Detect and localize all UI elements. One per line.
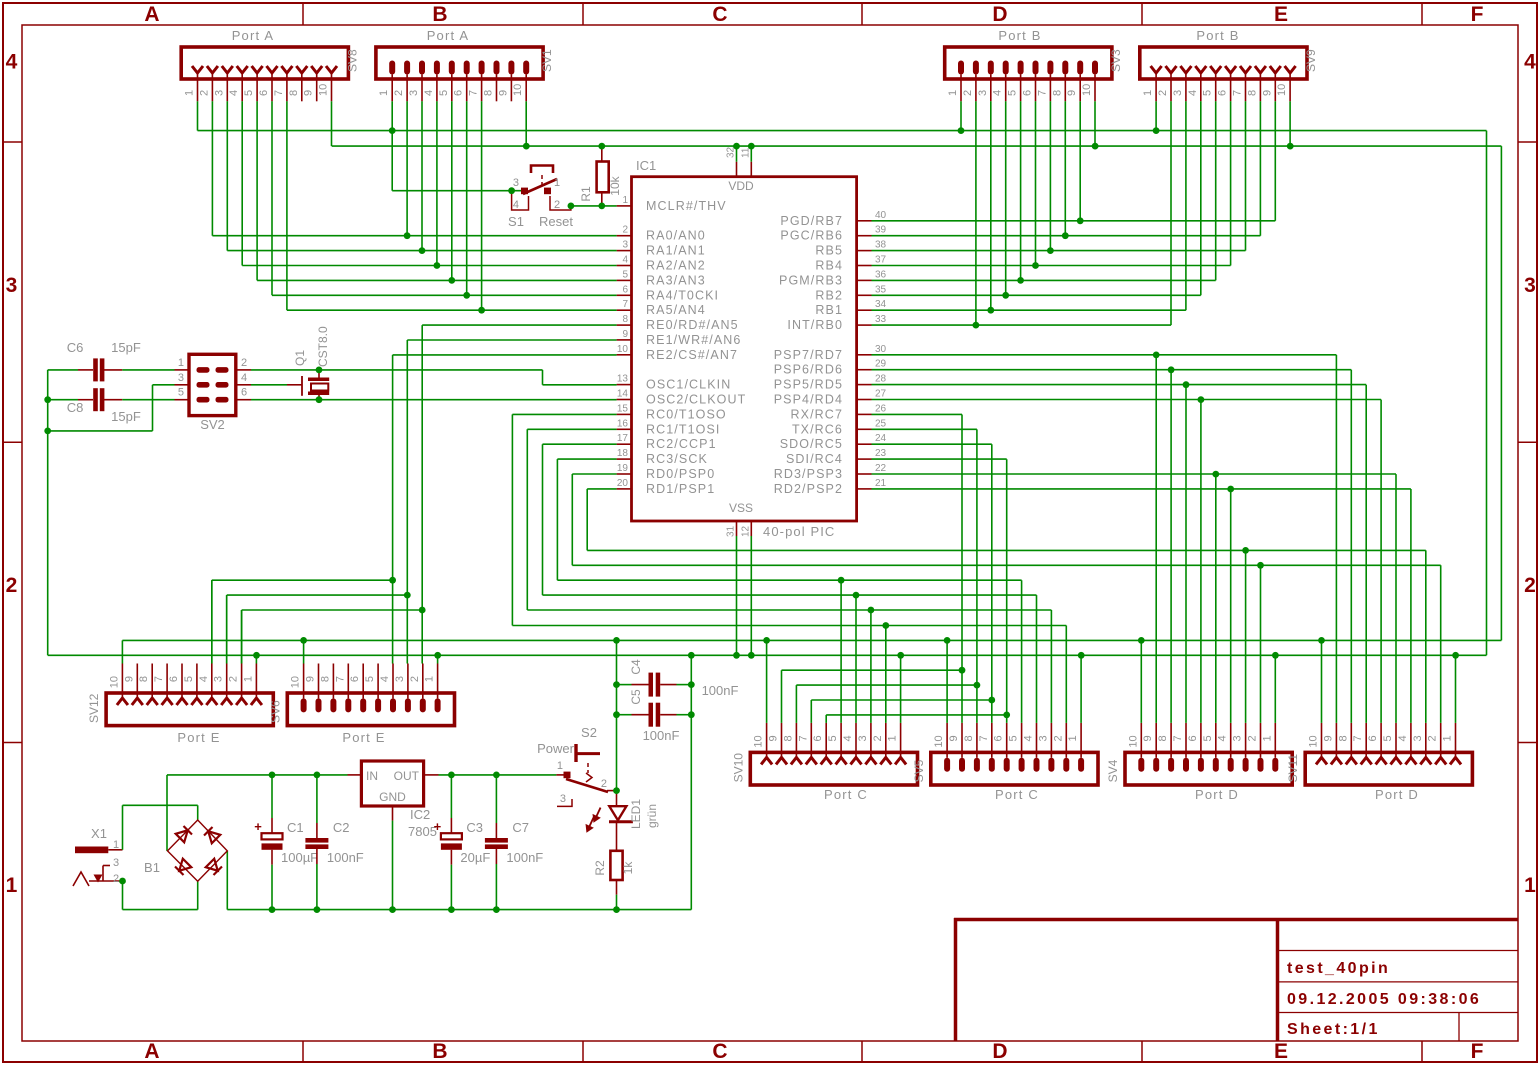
svg-text:4: 4: [241, 372, 247, 384]
svg-text:Port B: Port B: [1196, 28, 1239, 43]
svg-text:3: 3: [622, 240, 628, 251]
svg-text:RC3/SCK: RC3/SCK: [646, 452, 708, 466]
svg-text:10: 10: [1308, 735, 1320, 747]
svg-text:A: A: [144, 1040, 159, 1063]
svg-text:D: D: [992, 3, 1007, 26]
svg-text:C: C: [712, 3, 727, 26]
svg-text:6: 6: [812, 735, 824, 741]
svg-text:7805: 7805: [408, 824, 437, 839]
svg-text:2: 2: [409, 676, 421, 682]
svg-text:8: 8: [1157, 735, 1169, 741]
svg-text:3: 3: [560, 793, 566, 805]
svg-text:C: C: [712, 1040, 727, 1063]
svg-text:2: 2: [601, 778, 607, 790]
svg-text:8: 8: [782, 735, 794, 741]
svg-text:8: 8: [138, 676, 150, 682]
svg-text:2: 2: [393, 90, 405, 96]
svg-text:PGM/RB3: PGM/RB3: [779, 273, 843, 287]
svg-text:IN: IN: [366, 769, 378, 783]
svg-text:100nF: 100nF: [702, 683, 739, 698]
svg-text:13: 13: [617, 374, 629, 385]
svg-text:5: 5: [622, 269, 628, 280]
svg-text:SV2: SV2: [200, 417, 225, 432]
svg-text:28: 28: [875, 374, 887, 385]
svg-text:IC1: IC1: [636, 158, 656, 173]
svg-text:MCLR#/THV: MCLR#/THV: [646, 199, 727, 213]
svg-text:Power: Power: [537, 741, 575, 756]
svg-text:2: 2: [554, 199, 560, 211]
svg-text:A: A: [144, 3, 159, 26]
svg-text:RD0/PSP0: RD0/PSP0: [646, 467, 715, 481]
svg-text:10: 10: [1081, 84, 1093, 96]
svg-text:TX/RC6: TX/RC6: [792, 422, 843, 436]
svg-text:6: 6: [993, 735, 1005, 741]
svg-text:4: 4: [228, 90, 240, 96]
svg-text:2: 2: [1157, 90, 1169, 96]
svg-text:1: 1: [947, 90, 959, 96]
svg-text:6: 6: [1367, 735, 1379, 741]
svg-text:8: 8: [1246, 90, 1258, 96]
svg-text:1: 1: [113, 839, 119, 851]
svg-text:23: 23: [875, 448, 887, 459]
svg-text:14: 14: [617, 389, 629, 400]
svg-text:Port E: Port E: [342, 730, 385, 745]
svg-text:F: F: [1471, 1040, 1484, 1063]
svg-text:5: 5: [178, 387, 184, 399]
svg-text:36: 36: [875, 269, 887, 280]
svg-text:26: 26: [875, 403, 887, 414]
svg-text:1: 1: [887, 735, 899, 741]
svg-text:SV11: SV11: [1286, 754, 1300, 783]
svg-text:SV4: SV4: [1106, 759, 1120, 782]
svg-text:19: 19: [617, 463, 629, 474]
svg-text:5: 5: [243, 90, 255, 96]
svg-text:2: 2: [1427, 735, 1439, 741]
svg-text:17: 17: [617, 433, 629, 444]
svg-text:3: 3: [113, 857, 119, 869]
svg-text:E: E: [1274, 3, 1288, 26]
svg-text:15pF: 15pF: [111, 340, 141, 355]
svg-text:22: 22: [875, 463, 887, 474]
svg-text:20: 20: [617, 478, 629, 489]
svg-text:7: 7: [153, 676, 165, 682]
svg-text:SV1: SV1: [540, 49, 554, 72]
svg-text:24: 24: [875, 433, 887, 444]
svg-text:34: 34: [875, 299, 887, 310]
svg-text:RA5/AN4: RA5/AN4: [646, 303, 706, 317]
svg-text:9: 9: [948, 735, 960, 741]
svg-text:CST8.0: CST8.0: [316, 326, 330, 367]
svg-text:4: 4: [842, 735, 854, 741]
svg-text:31: 31: [726, 525, 737, 537]
svg-text:RE2/CS#/AN7: RE2/CS#/AN7: [646, 348, 738, 362]
svg-text:SDO/RC5: SDO/RC5: [780, 437, 843, 451]
svg-text:Port D: Port D: [1195, 787, 1239, 802]
svg-text:5: 5: [1008, 735, 1020, 741]
svg-text:3: 3: [408, 90, 420, 96]
svg-text:2: 2: [241, 357, 247, 369]
svg-text:PGC/RB6: PGC/RB6: [780, 229, 843, 243]
svg-text:6: 6: [1022, 90, 1034, 96]
svg-text:1: 1: [557, 760, 563, 772]
svg-text:1: 1: [424, 676, 436, 682]
svg-text:grün: grün: [645, 804, 659, 828]
svg-text:Port B: Port B: [998, 28, 1041, 43]
svg-text:25: 25: [875, 418, 887, 429]
svg-text:6: 6: [1187, 735, 1199, 741]
svg-text:Port E: Port E: [177, 730, 220, 745]
svg-text:E: E: [1274, 1040, 1288, 1063]
svg-text:RA2/AN2: RA2/AN2: [646, 259, 706, 273]
svg-text:1: 1: [1142, 90, 1154, 96]
svg-text:OUT: OUT: [394, 769, 420, 783]
svg-text:7: 7: [273, 90, 285, 96]
svg-text:2: 2: [228, 676, 240, 682]
svg-text:2: 2: [1247, 735, 1259, 741]
svg-text:9: 9: [303, 90, 315, 96]
svg-text:RD1/PSP1: RD1/PSP1: [646, 482, 715, 496]
svg-text:7: 7: [1232, 90, 1244, 96]
svg-text:RA3/AN3: RA3/AN3: [646, 273, 706, 287]
svg-text:12: 12: [740, 525, 751, 537]
svg-text:9: 9: [1142, 735, 1154, 741]
svg-text:9: 9: [497, 90, 509, 96]
svg-text:RB1: RB1: [815, 303, 843, 317]
svg-text:39: 39: [875, 225, 887, 236]
svg-text:9: 9: [1066, 90, 1078, 96]
svg-text:1: 1: [1261, 735, 1273, 741]
svg-text:30: 30: [875, 344, 887, 355]
svg-text:PSP6/RD6: PSP6/RD6: [774, 363, 843, 377]
svg-text:10: 10: [753, 735, 765, 747]
svg-text:7: 7: [978, 735, 990, 741]
svg-text:SV5: SV5: [912, 759, 926, 782]
svg-text:3: 3: [857, 735, 869, 741]
svg-text:4: 4: [423, 90, 435, 96]
svg-text:10: 10: [290, 676, 302, 688]
svg-text:PSP5/RD5: PSP5/RD5: [774, 378, 843, 392]
svg-text:1: 1: [378, 90, 390, 96]
svg-text:4: 4: [198, 676, 210, 682]
svg-text:5: 5: [1382, 735, 1394, 741]
svg-text:7: 7: [797, 735, 809, 741]
svg-text:15: 15: [617, 403, 629, 414]
svg-text:8: 8: [319, 676, 331, 682]
svg-text:10: 10: [617, 344, 629, 355]
svg-text:5: 5: [1202, 735, 1214, 741]
svg-text:PSP7/RD7: PSP7/RD7: [774, 348, 843, 362]
svg-text:1: 1: [1442, 735, 1454, 741]
svg-text:1: 1: [178, 357, 184, 369]
svg-text:4: 4: [513, 199, 519, 211]
svg-text:+: +: [434, 819, 442, 834]
svg-text:SV9: SV9: [1304, 49, 1318, 72]
svg-text:S1: S1: [508, 214, 524, 229]
svg-text:S2: S2: [581, 725, 597, 740]
svg-text:4: 4: [1023, 735, 1035, 741]
svg-text:Reset: Reset: [539, 214, 573, 229]
svg-text:RC1/T1OSI: RC1/T1OSI: [646, 422, 721, 436]
svg-text:Port D: Port D: [1375, 787, 1419, 802]
svg-text:100µF: 100µF: [281, 850, 318, 865]
svg-text:RC2/CCP1: RC2/CCP1: [646, 437, 717, 451]
svg-text:+: +: [254, 819, 262, 834]
svg-text:Port A: Port A: [427, 28, 470, 43]
svg-text:4: 4: [1397, 735, 1409, 741]
svg-text:SV3: SV3: [1109, 49, 1123, 72]
svg-text:5: 5: [1202, 90, 1214, 96]
svg-text:RD2/PSP2: RD2/PSP2: [774, 482, 843, 496]
svg-text:6: 6: [241, 387, 247, 399]
svg-text:7: 7: [468, 90, 480, 96]
svg-text:RB5: RB5: [815, 244, 843, 258]
svg-text:R2: R2: [593, 860, 607, 876]
svg-text:2: 2: [962, 90, 974, 96]
svg-text:C2: C2: [333, 820, 350, 835]
svg-text:10k: 10k: [608, 175, 622, 195]
svg-text:2: 2: [1052, 735, 1064, 741]
svg-text:9: 9: [305, 676, 317, 682]
svg-text:7: 7: [334, 676, 346, 682]
svg-text:OSC1/CLKIN: OSC1/CLKIN: [646, 378, 731, 392]
svg-text:RD3/PSP3: RD3/PSP3: [774, 467, 843, 481]
svg-text:3: 3: [394, 676, 406, 682]
svg-text:4: 4: [6, 51, 18, 74]
svg-text:SDI/RC4: SDI/RC4: [786, 452, 843, 466]
svg-text:4: 4: [1524, 51, 1536, 74]
svg-text:2: 2: [622, 225, 628, 236]
svg-text:7: 7: [1172, 735, 1184, 741]
svg-text:5: 5: [1007, 90, 1019, 96]
svg-text:1: 1: [554, 177, 560, 189]
svg-text:RE0/RD#/AN5: RE0/RD#/AN5: [646, 318, 739, 332]
svg-text:VSS: VSS: [729, 501, 753, 515]
svg-text:18: 18: [617, 448, 629, 459]
svg-text:1: 1: [622, 195, 628, 206]
svg-text:5: 5: [438, 90, 450, 96]
svg-text:3: 3: [1037, 735, 1049, 741]
svg-text:1: 1: [1067, 735, 1079, 741]
svg-text:Port C: Port C: [995, 787, 1039, 802]
svg-text:RB4: RB4: [815, 259, 843, 273]
svg-text:4: 4: [622, 255, 628, 266]
svg-text:B: B: [432, 3, 447, 26]
svg-text:RC0/T1OSO: RC0/T1OSO: [646, 407, 727, 421]
svg-text:5: 5: [827, 735, 839, 741]
svg-text:27: 27: [875, 389, 887, 400]
svg-text:16: 16: [617, 418, 629, 429]
svg-text:C3: C3: [466, 820, 483, 835]
svg-text:4: 4: [1217, 735, 1229, 741]
svg-text:C4: C4: [629, 659, 643, 675]
svg-text:6: 6: [258, 90, 270, 96]
svg-text:INT/RB0: INT/RB0: [787, 318, 843, 332]
svg-text:5: 5: [364, 676, 376, 682]
svg-text:4: 4: [1187, 90, 1199, 96]
svg-text:15pF: 15pF: [111, 409, 141, 424]
svg-text:29: 29: [875, 359, 887, 370]
svg-text:9: 9: [1261, 90, 1273, 96]
svg-text:6: 6: [622, 284, 628, 295]
svg-text:9: 9: [768, 735, 780, 741]
svg-text:2: 2: [1524, 574, 1536, 597]
svg-text:2: 2: [872, 735, 884, 741]
svg-text:SV12: SV12: [87, 693, 101, 723]
svg-text:X1: X1: [91, 826, 107, 841]
svg-text:RB2: RB2: [815, 288, 843, 302]
svg-text:6: 6: [349, 676, 361, 682]
svg-text:PSP4/RD4: PSP4/RD4: [774, 393, 843, 407]
svg-text:7: 7: [1036, 90, 1048, 96]
svg-text:1k: 1k: [621, 861, 635, 875]
svg-text:21: 21: [875, 478, 887, 489]
svg-text:RE1/WR#/AN6: RE1/WR#/AN6: [646, 333, 741, 347]
svg-text:RA0/AN0: RA0/AN0: [646, 229, 706, 243]
svg-text:8: 8: [963, 735, 975, 741]
svg-text:38: 38: [875, 240, 887, 251]
svg-text:3: 3: [213, 676, 225, 682]
svg-text:SV8: SV8: [345, 49, 359, 72]
svg-text:1: 1: [184, 90, 196, 96]
svg-text:100nF: 100nF: [643, 728, 680, 743]
svg-text:OSC2/CLKOUT: OSC2/CLKOUT: [646, 393, 746, 407]
svg-text:GND: GND: [379, 790, 406, 804]
svg-text:10: 10: [1127, 735, 1139, 747]
svg-text:8: 8: [622, 314, 628, 325]
svg-text:2: 2: [198, 90, 210, 96]
svg-text:Port A: Port A: [232, 28, 275, 43]
svg-text:9: 9: [1322, 735, 1334, 741]
svg-text:3: 3: [1232, 735, 1244, 741]
svg-text:8: 8: [483, 90, 495, 96]
svg-text:1: 1: [242, 676, 254, 682]
svg-text:1: 1: [6, 874, 18, 897]
svg-text:C8: C8: [67, 400, 84, 415]
svg-text:100nF: 100nF: [327, 850, 364, 865]
svg-text:3: 3: [977, 90, 989, 96]
svg-text:10: 10: [933, 735, 945, 747]
svg-text:6: 6: [168, 676, 180, 682]
svg-text:8: 8: [1337, 735, 1349, 741]
svg-text:B1: B1: [144, 860, 160, 875]
svg-text:4: 4: [992, 90, 1004, 96]
svg-text:10: 10: [318, 84, 330, 96]
svg-text:37: 37: [875, 255, 887, 266]
svg-text:C6: C6: [67, 340, 84, 355]
svg-text:RX/RC7: RX/RC7: [791, 407, 843, 421]
svg-text:4: 4: [379, 676, 391, 682]
svg-text:9: 9: [622, 329, 628, 340]
svg-text:40: 40: [875, 210, 887, 221]
svg-text:3: 3: [178, 372, 184, 384]
svg-text:SV10: SV10: [731, 753, 745, 783]
svg-text:100nF: 100nF: [506, 850, 543, 865]
svg-text:LED1: LED1: [629, 799, 643, 829]
svg-text:7: 7: [622, 299, 628, 310]
svg-text:test_40pin: test_40pin: [1287, 960, 1390, 977]
svg-text:3: 3: [213, 90, 225, 96]
svg-text:10: 10: [108, 676, 120, 688]
svg-text:3: 3: [6, 274, 18, 297]
svg-text:9: 9: [123, 676, 135, 682]
svg-text:20µF: 20µF: [460, 850, 490, 865]
svg-text:VDD: VDD: [728, 179, 754, 193]
svg-text:IC2: IC2: [410, 807, 430, 822]
svg-text:8: 8: [288, 90, 300, 96]
svg-text:C1: C1: [287, 820, 304, 835]
svg-text:6: 6: [453, 90, 465, 96]
svg-text:7: 7: [1352, 735, 1364, 741]
svg-text:10: 10: [1276, 84, 1288, 96]
svg-text:R1: R1: [579, 186, 593, 202]
svg-text:09.12.2005 09:38:06: 09.12.2005 09:38:06: [1287, 991, 1481, 1008]
svg-text:33: 33: [875, 314, 887, 325]
svg-text:D: D: [992, 1040, 1007, 1063]
svg-text:Q1: Q1: [293, 350, 307, 366]
svg-text:B: B: [432, 1040, 447, 1063]
svg-text:C5: C5: [629, 689, 643, 705]
svg-text:3: 3: [1172, 90, 1184, 96]
svg-text:10: 10: [512, 84, 524, 96]
svg-text:6: 6: [1217, 90, 1229, 96]
svg-text:3: 3: [1412, 735, 1424, 741]
svg-text:PGD/RB7: PGD/RB7: [780, 214, 843, 228]
svg-text:5: 5: [183, 676, 195, 682]
svg-text:SV6: SV6: [268, 700, 282, 723]
svg-text:35: 35: [875, 284, 887, 295]
svg-text:2: 2: [113, 873, 119, 885]
svg-text:3: 3: [1524, 274, 1536, 297]
svg-text:Sheet:1/1: Sheet:1/1: [1287, 1021, 1380, 1038]
svg-text:2: 2: [6, 574, 18, 597]
svg-text:C7: C7: [512, 820, 529, 835]
svg-text:F: F: [1471, 3, 1484, 26]
svg-text:RA4/T0CKI: RA4/T0CKI: [646, 288, 719, 302]
svg-text:8: 8: [1051, 90, 1063, 96]
svg-text:RA1/AN1: RA1/AN1: [646, 244, 706, 258]
svg-text:40-pol PIC: 40-pol PIC: [763, 524, 835, 539]
svg-text:1: 1: [1524, 874, 1536, 897]
svg-text:Port C: Port C: [824, 787, 868, 802]
svg-text:3: 3: [513, 177, 519, 189]
